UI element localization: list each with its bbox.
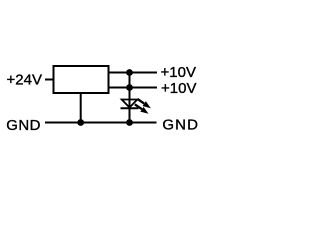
- wire +10V bottom: [108, 87, 158, 89]
- power supply box U1: [54, 66, 109, 93]
- svg-text:+10V: +10V: [161, 64, 196, 81]
- wire +10V top: [108, 72, 158, 74]
- svg-text:+10V: +10V: [161, 80, 196, 97]
- LED arrow upper: [138, 99, 151, 108]
- svg-text:GND: GND: [6, 117, 41, 134]
- svg-text:GND: GND: [162, 117, 199, 134]
- node junction middle: [126, 84, 133, 91]
- LED D1 triangle: [122, 100, 138, 108]
- LED arrow lower: [135, 104, 149, 114]
- svg-text:+24V: +24V: [7, 71, 42, 88]
- node junction LED-GND: [126, 119, 133, 126]
- node junction box-GND: [77, 119, 84, 126]
- LED D1 cathode bar: [121, 107, 139, 109]
- wire box to ground: [80, 93, 82, 123]
- wire GND rail: [45, 122, 157, 124]
- node junction top: [126, 69, 133, 76]
- wire vertical LED branch: [129, 73, 131, 123]
- wire +24V stub: [45, 79, 54, 81]
